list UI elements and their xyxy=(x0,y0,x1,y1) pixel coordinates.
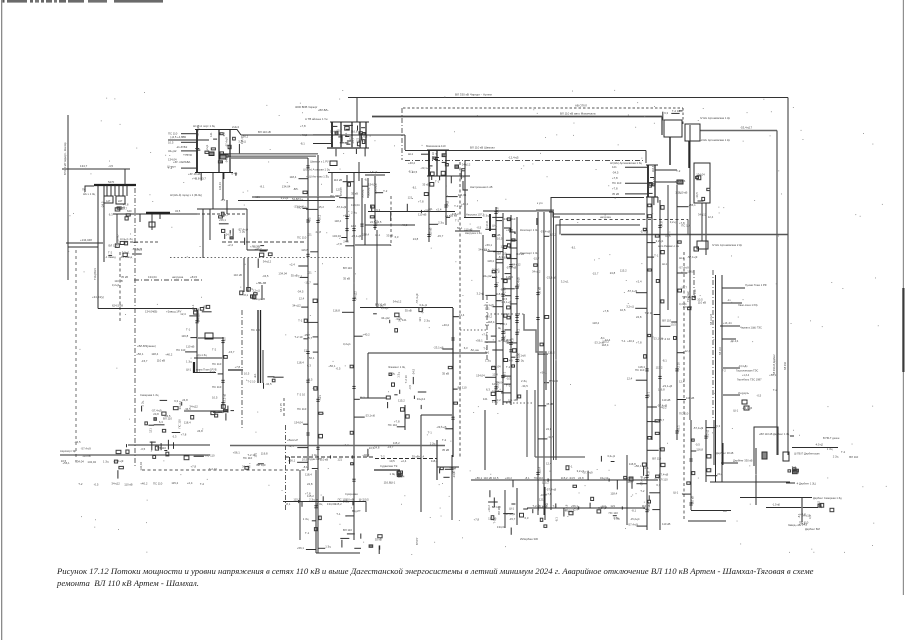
wire: ВЛ 110 row xyxy=(241,134,405,136)
svg-text:134,04: 134,04 xyxy=(476,374,485,378)
component box xyxy=(744,406,749,410)
svg-text:134,04(В): 134,04(В) xyxy=(145,310,157,314)
svg-text:-15,7: -15,7 xyxy=(509,517,516,521)
wire dotted row xyxy=(170,257,352,259)
svg-text:1АТ: 1АТ xyxy=(106,200,111,203)
labels xyxy=(675,179,686,183)
feeder: Ирганай pair a xyxy=(534,212,555,515)
feeder xyxy=(297,470,320,553)
wire xyxy=(484,410,486,470)
wire drop xyxy=(126,186,128,197)
svg-text:3,2+j1: 3,2+j1 xyxy=(122,250,130,254)
feeder xyxy=(209,337,228,408)
component box xyxy=(694,247,699,251)
svg-text:1 Зц: 1 Зц xyxy=(396,372,400,378)
svg-text:+7,8: +7,8 xyxy=(612,187,618,191)
svg-text:115,2: 115,2 xyxy=(398,398,405,402)
wire xyxy=(689,125,691,420)
svg-text:115,2: 115,2 xyxy=(548,350,555,354)
svg-text:2 Зц: 2 Зц xyxy=(378,303,384,307)
svg-text:34+j12: 34+j12 xyxy=(600,476,609,480)
svg-text:121: 121 xyxy=(402,318,407,322)
svg-text:121: 121 xyxy=(304,348,309,352)
svg-text:ВЛ 110: ВЛ 110 xyxy=(497,505,501,514)
wire drop xyxy=(331,172,333,193)
svg-text:134,04: 134,04 xyxy=(294,421,303,425)
wire drop xyxy=(367,178,369,198)
svg-text:Ш-1: Ш-1 xyxy=(492,223,497,227)
wire drop xyxy=(110,186,112,197)
svg-text:+2,4: +2,4 xyxy=(187,481,193,485)
svg-text:118,4: 118,4 xyxy=(651,165,655,172)
wire row xyxy=(553,213,645,215)
svg-text:Т-2: Т-2 xyxy=(773,388,778,392)
svg-text:-34,5: -34,5 xyxy=(396,317,403,321)
wire drop xyxy=(428,176,430,192)
wire dash-dot xyxy=(405,160,643,162)
transformer bay xyxy=(664,120,682,137)
svg-text:6,3: 6,3 xyxy=(222,132,226,136)
svg-text:121: 121 xyxy=(418,317,422,322)
wire xyxy=(790,435,794,437)
svg-text:ПС 110: ПС 110 xyxy=(178,419,182,429)
wire xyxy=(755,448,757,505)
svg-text:+2,4: +2,4 xyxy=(800,512,806,516)
svg-text:134,04: 134,04 xyxy=(368,183,377,187)
svg-text:-8,1: -8,1 xyxy=(243,293,248,297)
wire xyxy=(246,209,248,250)
svg-text:-23,1+j6: -23,1+j6 xyxy=(436,425,447,429)
svg-text:110 кВ: 110 кВ xyxy=(117,205,125,209)
svg-text:+56,1: +56,1 xyxy=(63,461,71,465)
component knot: Элемент 1 Зц xyxy=(386,368,426,409)
svg-text:121: 121 xyxy=(428,207,433,211)
svg-text:-1,5+j2: -1,5+j2 xyxy=(369,170,378,174)
svg-text:Т-1: Т-1 xyxy=(506,365,511,369)
wire drop xyxy=(212,173,214,210)
wire xyxy=(261,285,263,300)
svg-text:-8,1: -8,1 xyxy=(631,508,636,512)
wire drop xyxy=(361,178,363,200)
wire gray staircase xyxy=(524,314,546,390)
wire dashed xyxy=(142,469,308,471)
svg-text:116,8: 116,8 xyxy=(351,130,358,134)
svg-text:-8,1: -8,1 xyxy=(797,513,801,518)
svg-text:+40,2: +40,2 xyxy=(408,161,416,165)
svg-text:134,04: 134,04 xyxy=(315,498,319,507)
svg-text:118,4: 118,4 xyxy=(537,467,541,474)
feeder: Шамхал-Тяговая south xyxy=(288,158,311,470)
svg-text:-0,5: -0,5 xyxy=(476,226,481,230)
svg-text:нагрузка: нагрузка xyxy=(172,275,184,279)
wire drop xyxy=(114,186,116,197)
svg-text:Т-1: Т-1 xyxy=(621,339,626,343)
svg-text:-15,7: -15,7 xyxy=(681,286,688,290)
svg-text:34+j12: 34+j12 xyxy=(263,260,272,264)
svg-text:ПС 110: ПС 110 xyxy=(297,235,307,239)
svg-text:(-)4,5 +4,8ВБ: (-)4,5 +4,8ВБ xyxy=(170,135,186,139)
wire drop xyxy=(374,176,376,196)
svg-text:-34,5: -34,5 xyxy=(521,384,528,388)
svg-text:121: 121 xyxy=(253,452,257,457)
svg-text:+1,3-4: +1,3-4 xyxy=(742,374,750,377)
svg-text:Судак 1 РУ: Судак 1 РУ xyxy=(308,457,322,461)
svg-text:-8,1: -8,1 xyxy=(312,386,317,390)
component knot: Изберг группа xyxy=(566,454,669,500)
feeder dashed row xyxy=(285,449,375,464)
svg-text:35 кВ: 35 кВ xyxy=(450,214,457,218)
svg-text:ПС 110: ПС 110 xyxy=(681,223,691,227)
svg-text:ПС 110: ПС 110 xyxy=(534,476,544,480)
svg-text:+134,048: +134,048 xyxy=(80,238,92,242)
svg-text:Ш-1: Ш-1 xyxy=(375,233,380,237)
feeder short xyxy=(388,405,409,430)
svg-text:5470: 5470 xyxy=(108,180,115,184)
bus xyxy=(688,141,690,168)
wire xyxy=(365,502,367,513)
component knot above xyxy=(663,109,683,121)
svg-text:+2,4: +2,4 xyxy=(227,243,233,247)
svg-text:-0,5: -0,5 xyxy=(336,367,341,371)
scan speckle noise xyxy=(68,90,886,555)
svg-text:118,4: 118,4 xyxy=(334,219,341,223)
wire xyxy=(360,307,453,309)
svg-text:-15,7: -15,7 xyxy=(228,350,235,354)
svg-text:+56,1: +56,1 xyxy=(136,352,144,356)
svg-text:+ВЛ 110 кВ Дербент 1 Зц: +ВЛ 110 кВ Дербент 1 Зц xyxy=(759,432,790,436)
svg-text:134,04: 134,04 xyxy=(75,460,84,464)
svg-text:24,8: 24,8 xyxy=(445,214,451,218)
svg-text:12,4: 12,4 xyxy=(351,224,357,228)
svg-text:Т-2: Т-2 xyxy=(442,438,447,442)
svg-text:Шч х 1 Зц: Шч х 1 Зц xyxy=(83,192,96,196)
svg-text:ПС 110: ПС 110 xyxy=(330,194,340,198)
svg-text:3,2+j1: 3,2+j1 xyxy=(626,305,634,309)
wire xyxy=(198,337,223,339)
svg-text:1 Зц: 1 Зц xyxy=(186,360,192,364)
svg-text:ВЛ 110: ВЛ 110 xyxy=(196,313,200,322)
svg-text:-23,1+j6: -23,1+j6 xyxy=(484,303,495,307)
svg-text:134,04: 134,04 xyxy=(492,365,501,369)
svg-text:3,2+j1: 3,2+j1 xyxy=(670,220,678,224)
svg-text:3,2+j1: 3,2+j1 xyxy=(281,196,289,200)
svg-text:24,8: 24,8 xyxy=(636,315,642,319)
wire xyxy=(360,397,386,399)
svg-text:35 кВ: 35 кВ xyxy=(343,277,350,281)
labels right of Шамхал xyxy=(676,169,681,173)
svg-text:110 кВ: 110 кВ xyxy=(418,212,426,216)
wire dark xyxy=(436,440,438,480)
svg-text:121: 121 xyxy=(337,457,342,461)
feeder xyxy=(695,420,723,482)
svg-text:ВЛ 110 кВ авто Махачкала: ВЛ 110 кВ авто Махачкала xyxy=(560,112,596,116)
svg-text:115,2: 115,2 xyxy=(549,233,556,237)
svg-text:+Завод 1РУ: +Завод 1РУ xyxy=(166,310,182,314)
svg-text:ТЭЦ ВНЧ: ТЭЦ ВНЧ xyxy=(93,268,97,280)
svg-text:134,04: 134,04 xyxy=(219,182,222,190)
svg-text:+56,1: +56,1 xyxy=(317,214,321,222)
svg-text:3,2+j1: 3,2+j1 xyxy=(705,429,709,437)
svg-text:-23,1+j6: -23,1+j6 xyxy=(365,413,376,417)
svg-text:ВЛ 110: ВЛ 110 xyxy=(662,318,671,322)
component knot xyxy=(340,534,382,555)
svg-text:Т-2: Т-2 xyxy=(722,368,727,372)
svg-text:-13,4-Дз: -13,4-Дз xyxy=(738,365,748,368)
svg-text:-8,1: -8,1 xyxy=(525,476,530,480)
svg-text:24,8: 24,8 xyxy=(578,476,584,480)
feeder: Шамхал - юг 1 xyxy=(626,197,667,530)
svg-text:-15,7: -15,7 xyxy=(592,271,599,275)
svg-text:24,8: 24,8 xyxy=(316,230,322,234)
wire gray xyxy=(801,498,803,522)
svg-text:+40,2: +40,2 xyxy=(400,223,408,227)
svg-text:+40,2: +40,2 xyxy=(442,323,450,327)
svg-text:+56,1: +56,1 xyxy=(241,135,249,139)
svg-text:24,8: 24,8 xyxy=(717,472,723,476)
component knot right of Кизилюрт xyxy=(233,135,249,154)
wire dashed tie xyxy=(403,107,683,109)
wire drop xyxy=(118,186,120,197)
wire: ВЛ 330 кВ Чирюрт - Артем top run xyxy=(348,97,788,99)
svg-text:6,3: 6,3 xyxy=(716,424,720,428)
svg-text:ВЛ 110 кВ Чирюрт - Кизляр: ВЛ 110 кВ Чирюрт - Кизляр xyxy=(63,142,67,175)
svg-text:134,04: 134,04 xyxy=(696,173,705,177)
feeder: center gray-south xyxy=(297,197,331,553)
svg-text:Сумршная: Сумршная xyxy=(345,492,358,496)
svg-text:ВЛ 110: ВЛ 110 xyxy=(343,528,352,532)
svg-text:IV Шч Артемовская 2 Кр: IV Шч Артемовская 2 Кр xyxy=(712,243,743,247)
svg-text:АВ ОТКЛ: АВ ОТКЛ xyxy=(575,104,587,108)
svg-text:ВЛ РУ: ВЛ РУ xyxy=(415,537,419,545)
bay outline xyxy=(694,163,710,203)
breaker box gray xyxy=(220,155,226,159)
wire dashed tie xyxy=(682,108,684,126)
component knot: Леваши xyxy=(683,289,706,310)
wire xyxy=(184,410,227,412)
svg-text:В ПБ-Т дшшн: В ПБ-Т дшшн xyxy=(823,436,840,440)
svg-text:ВЛ 110: ВЛ 110 xyxy=(109,243,118,247)
component knot: Артем internals xyxy=(330,125,368,145)
svg-text:-57,4+j9: -57,4+j9 xyxy=(516,277,520,288)
svg-text:118,4: 118,4 xyxy=(610,492,617,496)
component knot in bay xyxy=(695,173,710,201)
svg-text:24,8: 24,8 xyxy=(374,445,380,449)
svg-text:118,4: 118,4 xyxy=(488,320,495,324)
svg-text:1 Зц: 1 Зц xyxy=(496,326,502,330)
wire xyxy=(421,414,452,416)
svg-text:-23,1+j6: -23,1+j6 xyxy=(222,393,226,404)
feeder: юг 2 xyxy=(640,200,676,530)
svg-text:Ш-1: Ш-1 xyxy=(408,152,413,156)
svg-text:Судакская ТЭ: Судакская ТЭ xyxy=(380,464,397,468)
component knot: верх центра xyxy=(373,293,430,332)
svg-text:+7,8: +7,8 xyxy=(305,491,311,495)
svg-text:Хунзах Тоже 1 РФ: Хунзах Тоже 1 РФ xyxy=(745,283,767,287)
svg-text:10,5: 10,5 xyxy=(497,237,503,241)
svg-text:35 кВ: 35 кВ xyxy=(442,371,449,375)
svg-text:6,3: 6,3 xyxy=(173,434,177,438)
wire drop xyxy=(151,214,153,230)
svg-text:24,8: 24,8 xyxy=(445,201,449,207)
svg-text:шина План 1РУБ: шина План 1РУБ xyxy=(196,368,217,372)
svg-text:110 кВ: 110 кВ xyxy=(234,273,242,277)
svg-text:-23,1+j6: -23,1+j6 xyxy=(501,300,512,304)
svg-text:115,2: 115,2 xyxy=(335,502,342,506)
svg-text:ПС 110: ПС 110 xyxy=(388,423,398,427)
wire dashed ext xyxy=(197,213,247,215)
svg-text:+2,4: +2,4 xyxy=(572,508,578,512)
wire: Кизляр feeder xyxy=(67,115,69,280)
component box xyxy=(783,452,789,461)
svg-text:2 Зц: 2 Зц xyxy=(833,454,839,458)
svg-text:12,4: 12,4 xyxy=(492,372,498,376)
svg-text:121: 121 xyxy=(209,132,213,137)
svg-text:Ш-1: Ш-1 xyxy=(509,506,514,510)
svg-text:ПС 110: ПС 110 xyxy=(176,348,186,352)
component knot xyxy=(211,405,234,421)
wire xyxy=(722,443,724,465)
wire xyxy=(243,258,245,292)
svg-text:-8,1: -8,1 xyxy=(516,328,520,333)
wire xyxy=(713,420,715,465)
svg-text:+7,8: +7,8 xyxy=(612,176,618,180)
svg-text:24,8: 24,8 xyxy=(197,429,203,433)
wire branch xyxy=(722,338,736,340)
wire row xyxy=(328,172,390,174)
svg-text:Ш-1: Ш-1 xyxy=(646,392,650,397)
svg-text:10,5: 10,5 xyxy=(363,497,369,501)
svg-text:6,3: 6,3 xyxy=(496,270,500,274)
svg-text:118,4: 118,4 xyxy=(290,175,297,179)
svg-text:Гоцатлинская ГЭС: Гоцатлинская ГЭС xyxy=(736,369,758,373)
svg-text:10,5: 10,5 xyxy=(212,395,218,399)
wire xyxy=(68,246,98,248)
svg-text:35 кВ: 35 кВ xyxy=(291,274,298,278)
svg-text:Т-1: Т-1 xyxy=(298,319,303,323)
labels row xyxy=(61,459,124,464)
bay box xyxy=(697,241,708,249)
component knot xyxy=(255,246,273,268)
wire xyxy=(124,169,126,185)
svg-text:3,2+j1: 3,2+j1 xyxy=(419,303,427,307)
component box xyxy=(330,161,337,166)
wire gray xyxy=(252,196,335,198)
feeder: center column 4 xyxy=(497,217,521,400)
svg-text:121: 121 xyxy=(307,271,312,275)
svg-text:+56,1: +56,1 xyxy=(476,338,484,342)
svg-text:нагрузка: нагрузка xyxy=(600,216,611,219)
svg-text:6,3: 6,3 xyxy=(159,420,163,424)
svg-text:121: 121 xyxy=(336,187,341,191)
svg-text:118,4: 118,4 xyxy=(496,292,503,296)
svg-text:+ВЛ-ВЛ(ранее): +ВЛ-ВЛ(ранее) xyxy=(137,344,156,348)
svg-text:-15,7: -15,7 xyxy=(304,280,311,284)
wire dash-dot xyxy=(693,270,695,300)
wire gray pair a xyxy=(220,153,318,155)
svg-text:115,2: 115,2 xyxy=(393,441,400,445)
svg-text:-0,5: -0,5 xyxy=(140,447,145,451)
svg-text:116,8: 116,8 xyxy=(696,447,703,451)
wire xyxy=(688,520,726,522)
wire xyxy=(771,497,812,499)
svg-text:118,4: 118,4 xyxy=(592,321,599,325)
svg-text:1 Зц: 1 Зц xyxy=(390,472,396,476)
svg-text:-53,4+j17: -53,4+j17 xyxy=(740,126,753,130)
wire gray pair b xyxy=(534,390,536,457)
svg-text:1 Зц: 1 Зц xyxy=(103,460,109,464)
wire tie xyxy=(655,169,677,171)
feeder: юг 3 xyxy=(662,185,696,440)
svg-text:+7,8: +7,8 xyxy=(300,124,306,128)
svg-text:Т-2: Т-2 xyxy=(676,169,681,173)
wire xyxy=(482,235,484,300)
svg-text:134,04: 134,04 xyxy=(351,203,360,207)
wire dash-dot xyxy=(134,279,203,281)
svg-text:Т-2 10: Т-2 10 xyxy=(676,362,680,371)
wire drop xyxy=(122,186,124,197)
svg-text:2 Зц: 2 Зц xyxy=(424,318,430,322)
svg-text:Т-2 10: Т-2 10 xyxy=(662,337,671,341)
svg-text:Ш-1: Ш-1 xyxy=(191,304,195,309)
svg-text:10,5: 10,5 xyxy=(484,248,490,252)
svg-text:12,4: 12,4 xyxy=(180,312,186,316)
wire xyxy=(128,444,210,446)
svg-text:Ш Шч Артемовская 1 Кр: Ш Шч Артемовская 1 Кр xyxy=(700,138,731,142)
svg-text:Кизилюрт 1 Зц: Кизилюрт 1 Зц xyxy=(520,228,539,232)
wire xyxy=(355,244,391,246)
svg-text:34+j12: 34+j12 xyxy=(178,400,182,409)
feeder xyxy=(351,178,377,240)
svg-text:авто Ремикс-с Зм: авто Ремикс-с Зм xyxy=(658,244,679,248)
svg-text:+7,8: +7,8 xyxy=(418,199,424,203)
svg-text:+13,-04: +13,-04 xyxy=(723,322,732,325)
bus: Чирюрт ГЭС xyxy=(94,184,136,186)
svg-text:118,4: 118,4 xyxy=(487,259,494,263)
svg-text:ВЛ 330: ВЛ 330 xyxy=(784,362,787,370)
svg-text:-4,5+j2: -4,5+j2 xyxy=(815,443,824,447)
svg-text:110 кВ: 110 кВ xyxy=(484,476,492,480)
wire xyxy=(404,135,406,150)
svg-text:IV Шч Артемовская 1 Кр: IV Шч Артемовская 1 Кр xyxy=(700,116,731,120)
svg-text:116,8: 116,8 xyxy=(333,309,340,313)
wire dash-dot xyxy=(241,310,243,430)
svg-text:6,3: 6,3 xyxy=(376,208,380,212)
svg-text:6,3: 6,3 xyxy=(664,111,668,115)
feeder: Ирганай а xyxy=(715,275,717,482)
svg-text:-52,-мн: -52,-мн xyxy=(470,348,479,352)
svg-text:+1Ш Акт+ово 1 Зц: +1Ш Акт+ово 1 Зц xyxy=(306,175,329,179)
svg-text:6,3: 6,3 xyxy=(307,364,311,368)
svg-text:Т-1: Т-1 xyxy=(186,328,191,332)
bus gray thick xyxy=(536,209,554,211)
wire dashed xyxy=(390,196,392,246)
svg-text:Махачкала 110: Махачкала 110 xyxy=(426,144,446,148)
bus gray xyxy=(228,369,243,371)
svg-text:134,04: 134,04 xyxy=(332,234,341,238)
svg-text:-15,7: -15,7 xyxy=(141,359,148,363)
svg-text:12,4: 12,4 xyxy=(627,377,633,381)
wire jog xyxy=(463,181,468,190)
svg-text:121: 121 xyxy=(610,504,615,508)
svg-text:3,2+j1: 3,2+j1 xyxy=(561,279,569,283)
wire xyxy=(60,454,210,456)
svg-text:6,3: 6,3 xyxy=(307,217,311,221)
svg-text:+7,8: +7,8 xyxy=(191,465,197,469)
svg-text:Унцукуль: Унцукуль xyxy=(738,391,750,395)
wire xyxy=(701,203,703,241)
svg-text:1 Зц: 1 Зц xyxy=(325,545,331,549)
svg-text:ВЛ 110 кВ Шамхал: ВЛ 110 кВ Шамхал xyxy=(470,146,495,150)
